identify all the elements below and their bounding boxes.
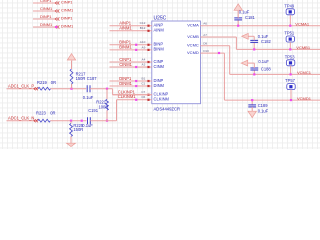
svg-text:ADC1_CLK_N: ADC1_CLK_N [8, 115, 34, 120]
svg-text:C187: C187 [87, 76, 98, 81]
svg-text:CINM1: CINM1 [40, 6, 52, 11]
svg-text:C191: C191 [88, 108, 99, 113]
svg-text:D9: D9 [203, 42, 207, 46]
svg-text:VCMC: VCMC [187, 43, 199, 48]
svg-text:B1: B1 [142, 76, 146, 80]
svg-text:AINM1: AINM1 [119, 26, 132, 31]
svg-text:CINP1: CINP1 [40, 0, 51, 3]
svg-text:0.1uF: 0.1uF [83, 95, 94, 100]
svg-text:A3: A3 [142, 62, 146, 66]
svg-text:BINM: BINM [154, 47, 165, 52]
svg-text:CINP1: CINP1 [61, 0, 72, 5]
svg-text:VCMC1: VCMC1 [297, 70, 312, 75]
svg-text:0.1uF: 0.1uF [258, 34, 269, 39]
svg-text:TP49: TP49 [284, 3, 295, 8]
svg-text:0.1uF: 0.1uF [82, 123, 93, 128]
svg-text:A10: A10 [140, 40, 146, 44]
svg-text:A4: A4 [142, 57, 146, 61]
svg-text:TP53: TP53 [285, 54, 296, 59]
svg-text:VCMB: VCMB [187, 34, 199, 39]
svg-text:AINM: AINM [154, 28, 165, 33]
svg-text:DINM1: DINM1 [40, 22, 52, 27]
svg-text:VCMD1: VCMD1 [297, 96, 312, 101]
svg-text:ADS4449ZCR: ADS4449ZCR [154, 106, 181, 111]
svg-text:ADC1_CLK_P: ADC1_CLK_P [8, 83, 34, 88]
svg-text:R219: R219 [37, 80, 48, 85]
svg-text:DINM: DINM [154, 83, 165, 88]
svg-text:CLKINM: CLKINM [154, 97, 170, 102]
svg-text:VCMA: VCMA [187, 23, 199, 28]
svg-text:C7: C7 [141, 90, 145, 94]
svg-text:DINM1: DINM1 [61, 24, 73, 29]
svg-text:C12: C12 [140, 21, 146, 25]
svg-text:DINM1: DINM1 [119, 81, 132, 86]
svg-text:100R: 100R [99, 104, 109, 109]
svg-text:C1: C1 [141, 81, 145, 85]
svg-text:VCMD: VCMD [187, 50, 199, 55]
svg-text:DINP1: DINP1 [61, 16, 72, 21]
svg-text:CINM: CINM [154, 64, 165, 69]
svg-text:C181: C181 [245, 15, 256, 20]
svg-text:0R: 0R [50, 111, 55, 116]
svg-text:CINM1: CINM1 [61, 8, 73, 13]
svg-text:U25C: U25C [154, 15, 167, 21]
svg-text:C6: C6 [141, 95, 145, 99]
svg-text:0.1uF: 0.1uF [258, 109, 269, 114]
svg-text:A7: A7 [203, 33, 207, 37]
svg-text:R223: R223 [36, 111, 47, 116]
svg-text:VCMA1: VCMA1 [295, 21, 310, 26]
svg-text:0.1uF: 0.1uF [258, 59, 269, 64]
svg-text:A6: A6 [203, 22, 207, 26]
svg-text:VCMB1: VCMB1 [296, 45, 311, 50]
svg-text:A9: A9 [142, 45, 146, 49]
svg-text:0.1uF: 0.1uF [239, 10, 250, 15]
svg-text:CINM1: CINM1 [119, 62, 132, 67]
svg-text:TP57: TP57 [285, 78, 296, 83]
svg-text:D10: D10 [203, 49, 209, 53]
svg-text:C182: C182 [261, 39, 272, 44]
svg-text:BINM1: BINM1 [119, 45, 132, 50]
svg-text:DINP1: DINP1 [40, 14, 51, 19]
svg-text:B12: B12 [140, 26, 146, 30]
svg-text:150R: 150R [76, 76, 86, 81]
svg-text:0R: 0R [51, 80, 56, 85]
svg-text:TP51: TP51 [284, 31, 295, 36]
svg-text:C188: C188 [261, 66, 272, 71]
svg-text:C189: C189 [258, 103, 269, 108]
